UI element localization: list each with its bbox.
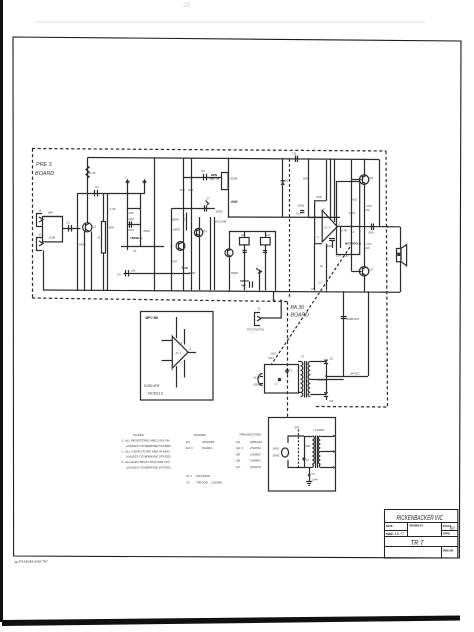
resistor 600 [304, 436, 306, 468]
capacitor C13 output [371, 224, 373, 231]
wire PSU bottom run [326, 376, 368, 378]
wire secondary CT [310, 379, 343, 381]
wire tone short [128, 208, 141, 210]
mains primary box [265, 365, 299, 394]
sub row line right cell [442, 530, 458, 532]
svg-text:BOARD: BOARD [35, 171, 54, 177]
wire ground rail [43, 290, 400, 292]
PRE 3 board dashed outline top [32, 149, 386, 152]
svg-text:TR 7: TR 7 [411, 540, 425, 547]
capacitor C3 electrolytic [102, 222, 106, 254]
svg-text:F2: F2 [312, 472, 316, 476]
svg-text:160K: 160K [298, 204, 306, 208]
row line 1 [385, 522, 458, 524]
svg-text:60HZ: 60HZ [254, 383, 261, 387]
svg-text:1/4A: 1/4A [312, 478, 318, 482]
svg-text:1. ALL RESISTORS ARE 1/2W 5%: 1. ALL RESISTORS ARE 1/2W 5% [122, 439, 170, 443]
svg-text:A01: A01 [351, 198, 357, 202]
svg-text:IN5240B: IN5240B [202, 440, 214, 444]
resistor R13 1M [240, 238, 250, 245]
pin left b [162, 360, 173, 362]
title block outer [385, 510, 458, 559]
svg-text:C10: C10 [296, 212, 302, 216]
wire Q7 base [352, 271, 362, 273]
svg-text:68K: 68K [48, 211, 54, 215]
wire stage3b vertical [210, 217, 212, 290]
PRE 3 board dashed outline bottom [32, 298, 287, 302]
svg-text:IN4002: IN4002 [202, 446, 212, 450]
svg-text:7µ: 7µ [181, 266, 185, 270]
svg-text:500: 500 [369, 231, 374, 235]
wire trem drive [259, 271, 261, 291]
fuse F1 [287, 368, 289, 374]
capacitor C11 on rail [295, 156, 297, 163]
TITLEBLOCK [385, 510, 458, 559]
wire +V rail right drop [379, 160, 381, 228]
svg-text:TRANSISTORS: TRANSISTORS [239, 433, 262, 437]
svg-text:C11: C11 [292, 152, 297, 156]
svg-text:PA 30: PA 30 [291, 305, 305, 311]
svg-text:3300/40V: 3300/40V [347, 317, 361, 321]
svg-text:D3: D3 [330, 399, 334, 403]
capacitor C7a [186, 213, 188, 231]
svg-text:2.2: 2.2 [317, 281, 322, 285]
svg-text:2W: 2W [365, 246, 371, 250]
wire jack ground drop [43, 251, 45, 291]
svg-text:C1: C1 [66, 221, 70, 225]
capacitor C2 [77, 193, 79, 290]
capacitor C9 [263, 250, 267, 252]
wire op-amp top pin [330, 159, 332, 219]
svg-text:IC-1: IC-1 [186, 474, 192, 478]
svg-text:DATE: DATE [386, 525, 393, 528]
svg-text:SW1: SW1 [268, 356, 275, 360]
svg-text:Q4: Q4 [236, 453, 240, 457]
svg-text:EARLIER: EARLIER [144, 384, 160, 388]
faint scan streak [35, 21, 425, 22]
speaker SPK [397, 245, 407, 266]
svg-text:D2,3: D2,3 [186, 446, 193, 450]
svg-text:C7: C7 [183, 218, 187, 222]
diode D1 column [282, 158, 284, 217]
filter cap 3300/40V column [343, 292, 345, 376]
svg-text:D2: D2 [330, 357, 334, 361]
svg-text:Q6: Q6 [236, 459, 240, 463]
wire op-amp pin column [334, 159, 336, 222]
svg-text:MPSA18: MPSA18 [250, 440, 262, 444]
MPC earlier models box [141, 312, 214, 401]
driver module box [337, 182, 360, 255]
transformer T2 [304, 428, 327, 468]
op-amp IC-1 earlier [172, 336, 188, 368]
capacitor C12 [300, 210, 304, 212]
resistor R8 50K [183, 158, 185, 290]
svg-text:600K: 600K [216, 210, 224, 214]
svg-text:3. ALL ELECTROLYTICS ARE 25V: 3. ALL ELECTROLYTICS ARE 25V [122, 460, 171, 464]
svg-text:600K: 600K [231, 177, 239, 181]
row line 2 [385, 536, 458, 538]
resistor R5 2.2K [107, 194, 109, 291]
wire C5 feedback [124, 273, 191, 275]
pot VOLUME [214, 217, 216, 290]
resistor R4 650K [84, 232, 86, 291]
pin 5 [184, 329, 186, 345]
resistor R6 220K [128, 224, 141, 226]
resistor R15 60K [308, 159, 310, 218]
svg-text:2.2K: 2.2K [109, 207, 117, 211]
svg-text:DIODES: DIODES [194, 433, 207, 437]
diodes list [186, 433, 223, 485]
svg-text:47K: 47K [172, 260, 178, 264]
svg-text:UNLESS OTHERWISE STATED.: UNLESS OTHERWISE STATED. [126, 455, 172, 459]
svg-text:1M: 1M [241, 233, 246, 237]
wire Q7 emitter to ground rail [364, 276, 366, 292]
svg-text:C6: C6 [201, 169, 205, 173]
svg-text:2N5461: 2N5461 [249, 453, 261, 457]
svg-text:60: 60 [450, 526, 456, 531]
svg-text:4.7K: 4.7K [341, 229, 348, 233]
wire output node [338, 225, 401, 227]
divider v1 [407, 522, 409, 536]
row line 3 [385, 546, 458, 548]
dashed chassis diagonal [271, 247, 350, 365]
wire into op-amp [308, 217, 322, 219]
svg-text:UNLESS OTHERWISE STATED.: UNLESS OTHERWISE STATED. [126, 466, 172, 470]
svg-text:IC-1: IC-1 [325, 226, 331, 230]
resistor R1 68K [43, 216, 63, 218]
wire Q6 base [352, 179, 362, 181]
lamp L2 [302, 457, 305, 460]
svg-text:FOOTSWITCH: FOOTSWITCH [247, 329, 264, 332]
svg-text:23: 23 [183, 3, 190, 9]
resistor R7 450K [140, 194, 142, 247]
resistor R17 .27 ohm [364, 184, 366, 226]
capacitor C8 [243, 250, 247, 252]
svg-text:J3: J3 [257, 307, 261, 311]
diode D1 [281, 181, 285, 185]
resistor R16 4.7K [340, 227, 342, 249]
svg-text:C5: C5 [117, 273, 121, 277]
svg-text:1M: 1M [131, 269, 136, 273]
svg-text:650K: 650K [79, 243, 87, 247]
svg-text:2µ: 2µ [132, 249, 137, 253]
svg-text:20P: 20P [128, 217, 134, 221]
svg-text:1M: 1M [266, 233, 271, 237]
wire footswitch run [261, 300, 281, 318]
wire Q6 collector [364, 159, 366, 175]
tone network frame [127, 194, 129, 251]
switch SW dashed [298, 430, 300, 470]
svg-text:2. ALL CAPACITORS ARE IN MFD.: 2. ALL CAPACITORS ARE IN MFD. [121, 449, 171, 453]
svg-text:DEPTH: DEPTH [210, 177, 219, 181]
svg-text:220K: 220K [126, 228, 135, 232]
svg-text:150K: 150K [231, 200, 239, 204]
pot wiper riser 2 [144, 180, 146, 194]
wire stage2 vertical [154, 158, 156, 291]
svg-text:Q6: Q6 [370, 176, 374, 180]
svg-text:115V: 115V [254, 376, 261, 380]
svg-text:2: 2 [338, 222, 341, 226]
pin 4 [176, 317, 178, 338]
svg-text:Q2,3: Q2,3 [236, 446, 243, 450]
diode D3 [324, 392, 328, 396]
resistor R3 6.2K [87, 158, 89, 223]
svg-text:10P: 10P [129, 211, 134, 215]
svg-text:2: 2 [189, 347, 192, 351]
footswitch jack J3 [247, 307, 264, 332]
pot wiper riser 1 [127, 180, 129, 194]
wire bias column [351, 160, 353, 271]
wire speaker return [400, 262, 402, 292]
capacitor C10 [249, 282, 251, 288]
svg-text:D1: D1 [186, 440, 190, 444]
wire stub R 50K [191, 158, 193, 290]
AC plug [258, 374, 263, 386]
node dashed junction 2 [280, 300, 282, 302]
svg-text:J1: J1 [38, 209, 42, 213]
lamp L1 [278, 378, 281, 381]
svg-text:3: 3 [323, 207, 325, 211]
svg-text:PRE 3: PRE 3 [36, 162, 52, 168]
node dashed junction 1 [273, 299, 275, 301]
resistor R18 .27 ohm [364, 227, 366, 267]
svg-text:34VDC: 34VDC [350, 372, 361, 376]
svg-text:J1: J1 [97, 236, 101, 240]
svg-text:5: 5 [181, 341, 183, 345]
svg-text:F1: F1 [289, 369, 293, 373]
pot R9 600K [222, 173, 229, 190]
svg-text:MPC BD: MPC BD [146, 316, 159, 320]
wire tone out [121, 246, 164, 248]
svg-text:6.2K: 6.2K [90, 171, 97, 175]
wire +V top rail [88, 158, 380, 160]
junction nodes [77, 157, 369, 377]
border frame [13, 37, 461, 558]
svg-text:560K: 560K [231, 271, 239, 275]
pin 2 output [188, 352, 196, 354]
svg-text:Q7: Q7 [370, 268, 374, 272]
PA 30 board dashed right edge [386, 151, 388, 407]
divider v2 [441, 522, 443, 536]
svg-text:2W: 2W [365, 208, 371, 212]
pin 6 [176, 366, 178, 387]
svg-text:T2 600Ω∼: T2 600Ω∼ [313, 428, 327, 432]
svg-text:40VAC: 40VAC [318, 378, 328, 382]
svg-text:MPS: MPS [349, 211, 355, 215]
capacitor C6 coupling [184, 177, 222, 179]
PA 30 board dashed left edge [287, 302, 289, 418]
svg-text:C2: C2 [95, 185, 99, 189]
transistor Q4 [194, 228, 207, 236]
svg-text:220K: 220K [48, 236, 57, 240]
transistor Q5 [225, 249, 233, 257]
svg-text:.1: .1 [352, 230, 355, 234]
svg-text:2N4410: 2N4410 [249, 465, 261, 469]
transistor Q7 [359, 267, 373, 276]
svg-text:50HZ: 50HZ [273, 454, 280, 458]
svg-text:Q7: Q7 [236, 465, 240, 469]
ground [306, 481, 312, 483]
secondary tap arrow 3 [320, 467, 333, 469]
svg-text:BLK: BLK [271, 352, 276, 356]
svg-text:APPD: APPD [443, 533, 450, 536]
wire secondary top [310, 361, 326, 363]
svg-text:T1: T1 [301, 355, 305, 359]
svg-text:60P: 60P [317, 195, 322, 199]
svg-text:L2: L2 [306, 458, 310, 462]
node output junction [387, 226, 389, 228]
svg-text:2N4401: 2N4401 [249, 459, 261, 463]
wire PSU right column [368, 292, 370, 376]
svg-text:680P: 680P [173, 228, 180, 232]
wire tone mid [172, 208, 215, 210]
svg-text:INT: INT [242, 284, 247, 288]
svg-text:SW: SW [295, 426, 300, 430]
svg-text:1-18-77: 1-18-77 [391, 532, 405, 536]
svg-text:125N6E: 125N6E [211, 481, 223, 485]
svg-text:X7: X7 [205, 197, 210, 201]
svg-text:J: J [125, 175, 127, 179]
svg-text:DRAWN BY: DRAWN BY [410, 525, 424, 528]
svg-text:Q1: Q1 [93, 225, 97, 229]
export transformer box [269, 418, 336, 492]
input shield box [43, 217, 63, 242]
svg-text:4µ: 4µ [320, 264, 324, 268]
svg-text:MC1306P: MC1306P [196, 474, 211, 478]
wire first stage rail [78, 193, 146, 195]
transistor Q6 [359, 175, 373, 184]
svg-text:NOTES:: NOTES: [133, 433, 145, 437]
svg-text:10K: 10K [180, 188, 186, 192]
notes text [121, 433, 172, 470]
PRE 3 board dashed outline left [32, 149, 34, 299]
svg-text:50K: 50K [109, 226, 115, 230]
scan edge bar left [0, 0, 3, 622]
svg-text:BOARD: BOARD [291, 313, 310, 319]
svg-text:IC-1: IC-1 [176, 351, 182, 355]
power amp feedback box [315, 201, 326, 244]
jack J2 [36, 233, 43, 251]
wire driver column [326, 160, 328, 201]
transistor Q3 [176, 242, 185, 251]
op-amp IC-1 [317, 207, 341, 242]
svg-text:J: J [257, 265, 259, 269]
transistor Q1 [83, 223, 97, 232]
pin 7 [184, 360, 186, 378]
svg-text:MODELS: MODELS [148, 392, 164, 396]
resistor R14 1M [261, 238, 271, 245]
svg-text:Q4: Q4 [203, 229, 207, 233]
capacitor C4 [129, 221, 131, 227]
jack J1 [36, 209, 43, 227]
svg-text:J2: J2 [38, 233, 42, 237]
secondary tap arrow 2 [320, 451, 333, 453]
svg-text:▬ RICKENBACKER TR7: ▬ RICKENBACKER TR7 [15, 560, 48, 564]
svg-text:240V: 240V [272, 447, 281, 451]
tremolo oscillator frame [229, 231, 276, 233]
svg-text:600: 600 [306, 444, 311, 448]
svg-text:2N3391: 2N3391 [249, 446, 261, 450]
PA 30 board dashed bottom edge [316, 406, 388, 409]
divider v3 [441, 547, 443, 558]
capacitor C1 [63, 228, 81, 230]
AC plug 240V [282, 448, 289, 457]
svg-text:6: 6 [172, 368, 174, 372]
dashed shield line [289, 159, 291, 299]
svg-text:RICKENBACKER INC: RICKENBACKER INC [397, 513, 444, 522]
svg-text:L1: L1 [275, 382, 279, 386]
transistors list [236, 433, 262, 470]
diode D2 [324, 360, 328, 364]
svg-text:MOTOROLA: MOTOROLA [345, 242, 361, 246]
scan edge bar bottom [2, 616, 460, 627]
svg-text:22: 22 [310, 287, 315, 291]
svg-text:SPEED: SPEED [240, 279, 249, 283]
svg-text:T1: T1 [186, 481, 190, 485]
svg-text:VOLUME: VOLUME [215, 220, 227, 224]
wire primary loop [288, 436, 304, 443]
svg-text:450K: 450K [143, 229, 151, 233]
wire footswitch shield [273, 292, 275, 301]
svg-text:4: 4 [317, 235, 319, 239]
capacitor C14 under amp [329, 238, 335, 240]
svg-text:UNLESS OTHERWISE STATED.: UNLESS OTHERWISE STATED. [126, 444, 172, 448]
secondary tap arrow 1 [320, 436, 333, 438]
wire trem out arrow [256, 269, 262, 274]
wire secondary bottom [310, 394, 326, 396]
svg-text:Q1: Q1 [236, 440, 240, 444]
wire stage3 vertical [199, 217, 201, 290]
wire rectifier bus [326, 364, 328, 393]
svg-text:560K: 560K [172, 218, 180, 222]
svg-text:D1: D1 [285, 179, 289, 183]
svg-text:.: . [186, 452, 187, 456]
svg-text:DWG NO: DWG NO [443, 550, 454, 553]
svg-text:7: 7 [181, 361, 183, 365]
resistor R10 560K [171, 209, 173, 291]
transformer T1 [298, 355, 310, 398]
wire speaker feed [400, 227, 402, 249]
pin left a [162, 340, 173, 342]
sub row line left cell [385, 530, 408, 532]
wire bypass column [314, 244, 316, 291]
wire mid rail [229, 216, 341, 218]
svg-text:TRIODE: TRIODE [196, 481, 209, 485]
fuse F2 drop [309, 468, 311, 482]
